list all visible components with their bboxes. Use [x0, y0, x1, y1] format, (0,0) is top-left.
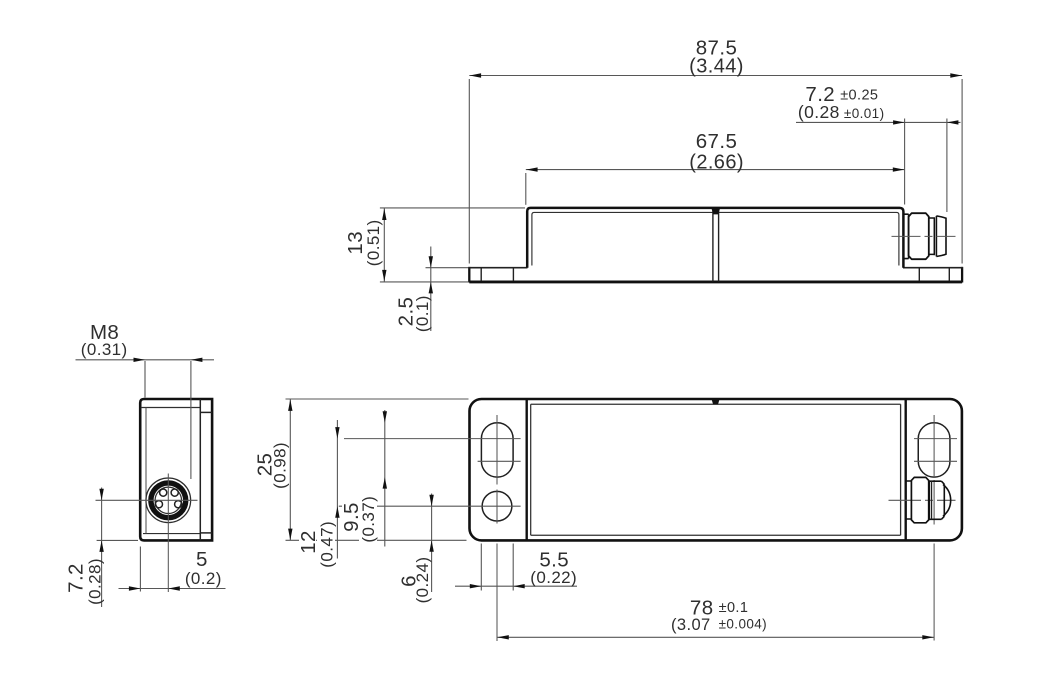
- svg-text:±0.01): ±0.01): [844, 106, 885, 121]
- svg-text:67.5: 67.5: [696, 130, 738, 153]
- svg-text:5: 5: [196, 548, 208, 571]
- svg-text:(0.28): (0.28): [86, 558, 105, 605]
- svg-text:(0.24): (0.24): [413, 557, 432, 604]
- svg-text:(0.98): (0.98): [271, 442, 290, 489]
- svg-text:(0.28: (0.28: [798, 102, 840, 122]
- svg-text:(3.44): (3.44): [689, 55, 744, 77]
- svg-text:(0.22): (0.22): [530, 568, 577, 587]
- svg-text:(0.2): (0.2): [185, 569, 222, 588]
- svg-text:(0.51): (0.51): [364, 219, 383, 266]
- svg-text:(0.1): (0.1): [413, 295, 432, 332]
- svg-text:(2.66): (2.66): [689, 152, 744, 174]
- svg-text:7.2: 7.2: [65, 563, 88, 593]
- svg-text:(3.07: (3.07: [671, 616, 711, 634]
- svg-text:±0.1: ±0.1: [719, 600, 749, 616]
- svg-text:±0.25: ±0.25: [840, 87, 878, 103]
- svg-text:(0.31): (0.31): [81, 340, 128, 359]
- svg-text:(0.37): (0.37): [359, 496, 378, 543]
- svg-text:(0.47): (0.47): [317, 521, 336, 568]
- svg-text:±0.004): ±0.004): [719, 617, 768, 632]
